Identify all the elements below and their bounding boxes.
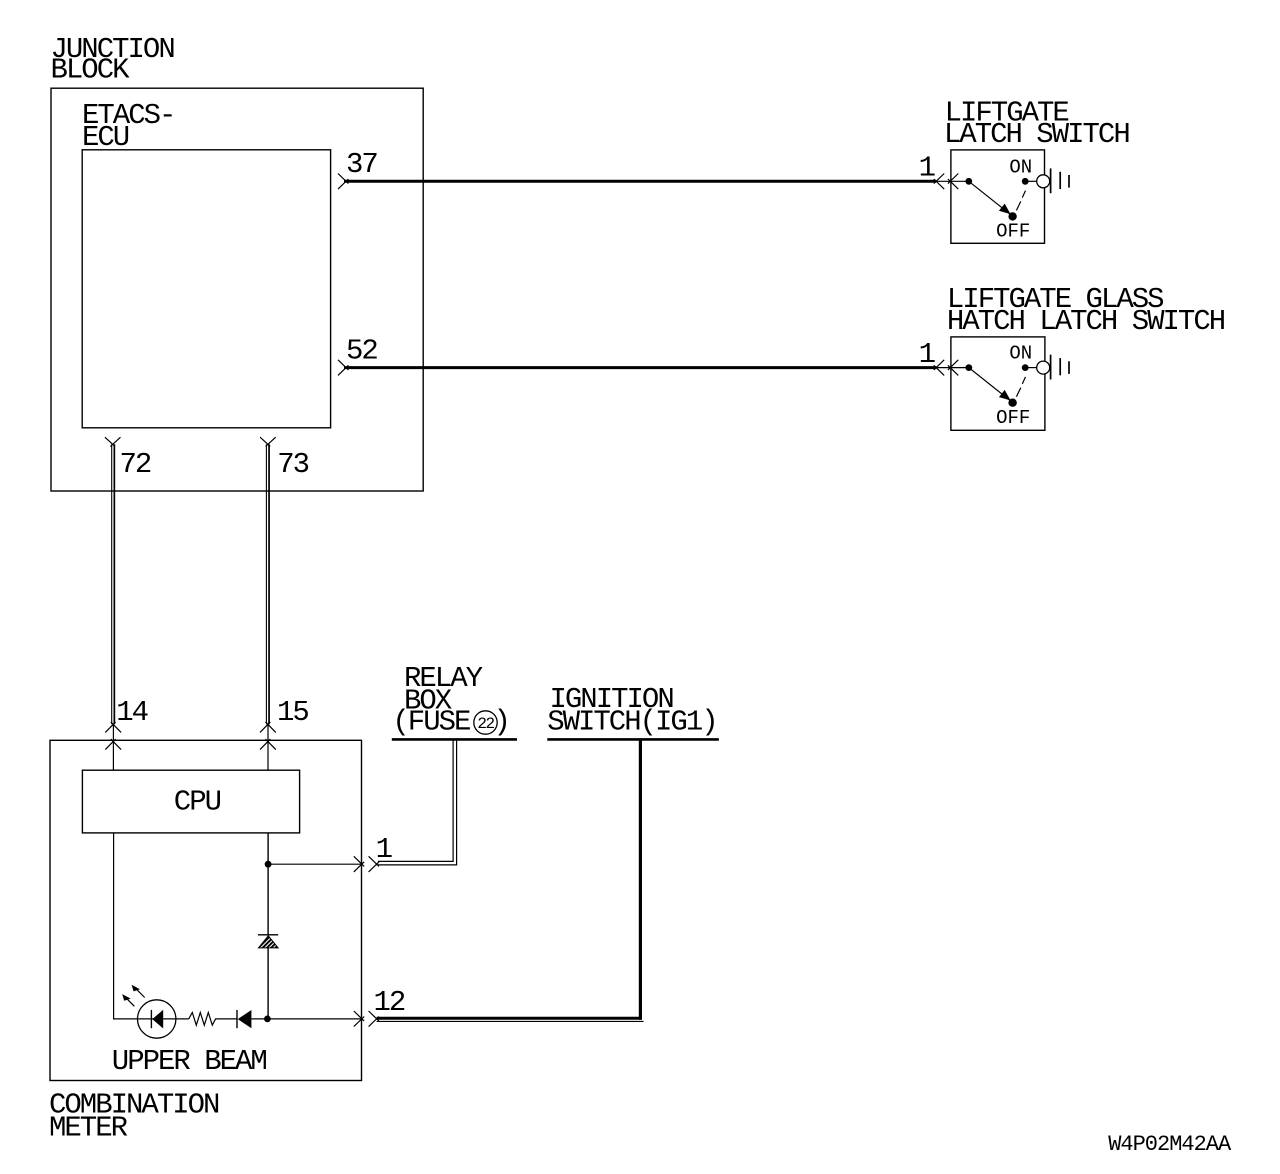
wire left leg to LED bbox=[113, 1018, 138, 1020]
liftgate latch switch connector arrows bbox=[934, 174, 959, 190]
pin 15 wire into meter bbox=[267, 724, 269, 770]
svg-text:BLOCK: BLOCK bbox=[51, 54, 131, 87]
CPU box bbox=[82, 770, 299, 833]
wire zener to bottom row bbox=[267, 948, 269, 1019]
wire diode to junction bbox=[251, 1018, 362, 1020]
pin 73 connector arrow bbox=[260, 437, 276, 446]
relay box bus bar bbox=[392, 738, 517, 741]
liftgate glass hatch latch switch label bbox=[947, 283, 1225, 338]
liftgate glass hatch latch switch lever arrowhead bbox=[1000, 391, 1010, 400]
pin 14 box-edge arrow bbox=[105, 739, 121, 750]
LED triangle bbox=[152, 1010, 163, 1029]
svg-text:ON: ON bbox=[1009, 156, 1032, 178]
svg-text:METER: METER bbox=[49, 1112, 128, 1145]
liftgate latch switch box bbox=[951, 150, 1045, 243]
node junction pin1 row bbox=[265, 861, 272, 868]
liftgate latch switch dashed throw bbox=[1016, 191, 1025, 211]
ignition switch label bbox=[547, 683, 716, 739]
liftgate glass hatch latch switch left contact dot bbox=[965, 364, 972, 371]
LED arrows bbox=[126, 988, 145, 1007]
wire pin1 to relay box (double line) bbox=[377, 740, 457, 865]
wire resistor to diode bbox=[218, 1018, 238, 1020]
liftgate latch switch left contact dot bbox=[965, 178, 972, 185]
pin 1 chevrons bbox=[354, 856, 379, 872]
pin 52 chevron bbox=[338, 360, 348, 376]
pin 14 wire into meter bbox=[112, 724, 114, 770]
liftgate latch switch lead wire bbox=[936, 180, 969, 182]
junction block label bbox=[51, 33, 175, 87]
svg-text:SWITCH(IG1): SWITCH(IG1) bbox=[547, 706, 716, 739]
svg-text:UPPER BEAM: UPPER BEAM bbox=[112, 1045, 267, 1078]
wire 72 to 14 (double line) bbox=[112, 444, 115, 724]
svg-text:LATCH SWITCH: LATCH SWITCH bbox=[944, 118, 1129, 151]
svg-text:1: 1 bbox=[919, 152, 935, 185]
svg-text:12: 12 bbox=[374, 986, 405, 1019]
svg-text:(FUSE: (FUSE bbox=[392, 706, 470, 739]
svg-text:ON: ON bbox=[1009, 343, 1032, 365]
pin 14 connector arrow bbox=[105, 722, 121, 733]
svg-text:22: 22 bbox=[477, 715, 494, 733]
liftgate latch switch lever arrowhead bbox=[1000, 205, 1010, 214]
diode cathode bar bbox=[236, 1010, 238, 1028]
wire pin 1 row bbox=[268, 863, 362, 865]
pin 72 connector arrow bbox=[105, 437, 121, 446]
wire CPU right leg down to zener bbox=[267, 833, 269, 935]
svg-text:14: 14 bbox=[116, 696, 147, 729]
svg-text:HATCH LATCH SWITCH: HATCH LATCH SWITCH bbox=[947, 305, 1225, 338]
wire 73 to 15 (double line) bbox=[266, 444, 269, 724]
combination meter label bbox=[49, 1089, 219, 1145]
LED circle bbox=[138, 1000, 176, 1038]
liftgate latch switch ON wire bbox=[1025, 180, 1036, 182]
liftgate latch switch label bbox=[944, 96, 1129, 151]
LED internal wire bbox=[138, 1018, 189, 1020]
zener diode triangle bbox=[259, 936, 279, 948]
liftgate glass hatch latch switch body circle bbox=[1037, 361, 1050, 374]
svg-text:72: 72 bbox=[120, 448, 151, 481]
liftgate glass hatch latch switch box bbox=[951, 337, 1045, 430]
svg-text:15: 15 bbox=[277, 696, 308, 729]
svg-text:OFF: OFF bbox=[996, 407, 1030, 429]
pin 15 box-edge arrow bbox=[260, 739, 276, 750]
liftgate glass hatch latch switch lever end dot bbox=[1008, 399, 1016, 407]
ETACS-ECU box bbox=[82, 150, 330, 428]
junction block box bbox=[51, 88, 423, 491]
liftgate glass hatch latch switch ON wire bbox=[1025, 367, 1036, 369]
pin 37 chevron bbox=[338, 174, 348, 190]
liftgate glass hatch latch switch ground bbox=[1051, 355, 1069, 380]
pin 15 connector arrow bbox=[260, 722, 276, 733]
svg-text:W4P02M42AA: W4P02M42AA bbox=[1108, 1132, 1232, 1157]
svg-text:37: 37 bbox=[346, 148, 377, 181]
relay box label bbox=[392, 662, 509, 739]
LED cathode bar bbox=[150, 1010, 152, 1028]
liftgate glass hatch latch switch connector arrows bbox=[934, 360, 959, 376]
liftgate glass hatch latch switch ON contact dot bbox=[1022, 364, 1029, 371]
ETACS-ECU label bbox=[82, 99, 174, 154]
wire CPU left leg down bbox=[113, 833, 115, 1020]
svg-text:CPU: CPU bbox=[174, 786, 221, 819]
liftgate glass hatch latch switch dashed throw bbox=[1016, 377, 1025, 397]
wire 37 to liftgate latch switch bbox=[344, 180, 936, 183]
wire IG1 down (bold) bbox=[639, 740, 642, 1019]
liftgate latch switch lever end dot bbox=[1008, 212, 1016, 220]
liftgate latch switch ON contact dot bbox=[1022, 178, 1029, 185]
liftgate latch switch body circle bbox=[1037, 175, 1050, 188]
combination meter box bbox=[50, 740, 362, 1080]
svg-text:52: 52 bbox=[346, 335, 377, 368]
svg-text:OFF: OFF bbox=[996, 221, 1030, 243]
svg-text:73: 73 bbox=[277, 448, 308, 481]
ignition switch bus bar bbox=[547, 738, 719, 741]
liftgate latch switch lever bbox=[969, 181, 1013, 216]
resistor bbox=[189, 1013, 218, 1026]
liftgate latch switch ground bbox=[1051, 168, 1069, 193]
zener diode bar bbox=[258, 934, 278, 936]
wire pin12 to IG1 (bold with thin companion) bbox=[377, 1017, 642, 1020]
diode triangle bbox=[238, 1010, 252, 1028]
wire 52 to liftgate glass hatch latch switch bbox=[344, 366, 936, 369]
node junction pin12 row bbox=[264, 1016, 271, 1023]
fuse 22 circle bbox=[474, 711, 497, 734]
svg-text:1: 1 bbox=[919, 338, 935, 371]
liftgate glass hatch latch switch lever bbox=[969, 368, 1013, 403]
liftgate glass hatch latch switch lead wire bbox=[936, 367, 969, 369]
pin 12 chevrons bbox=[354, 1011, 379, 1027]
